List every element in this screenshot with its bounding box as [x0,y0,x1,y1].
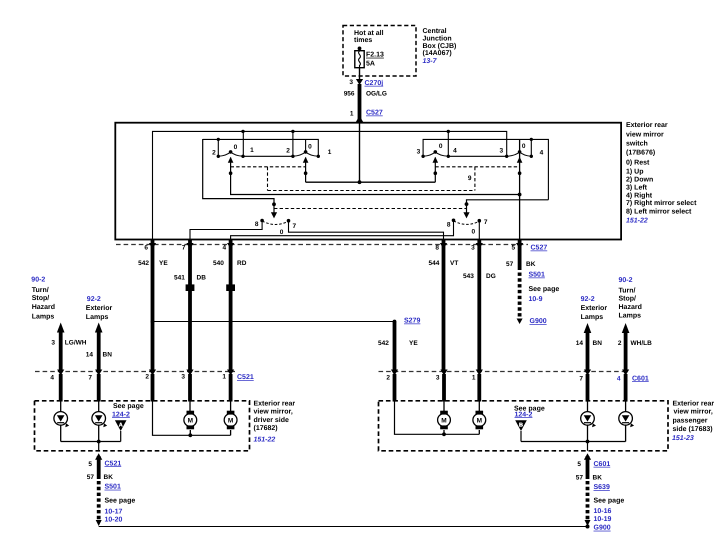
svg-text:Box (CJB): Box (CJB) [423,42,457,50]
svg-text:2) Down: 2) Down [626,175,653,183]
svg-text:Exterior rear: Exterior rear [254,400,296,408]
svg-text:C270j: C270j [365,79,384,87]
svg-text:M: M [188,418,193,425]
svg-text:124-2: 124-2 [112,411,130,418]
lamp L1 driver (turn signal) [54,401,68,442]
motor M1 passenger [438,401,451,435]
C601 pin arrows [391,370,629,376]
svg-text:See page: See page [529,286,560,293]
svg-text:2: 2 [386,374,390,381]
svg-text:See page: See page [113,403,144,410]
svg-text:BK: BK [593,475,603,482]
pin 5 C601 below passenger box [584,453,591,460]
svg-text:passenger: passenger [673,417,708,424]
triangle connector A [115,420,127,431]
arrow right select wiper [463,212,469,218]
exterior rear view mirror driver side box [35,401,250,451]
ground drop passenger box [587,442,589,451]
wire loop rect contacts 1-2 left group [243,131,293,156]
svg-text:1: 1 [250,147,254,154]
svg-text:0: 0 [280,229,284,236]
wire dot to fuse [359,48,361,50]
wire line B to left select wiper [203,139,274,213]
svg-text:Lamps: Lamps [581,314,604,321]
svg-text:8: 8 [447,221,451,228]
svg-text:(17682): (17682) [254,424,278,432]
lamp L1 passenger [581,401,595,442]
pin 5 C521 below driver box [95,453,102,460]
offpage arrow 90-2 turn stop hazard left [59,331,63,372]
svg-text:RD: RD [237,260,247,267]
lamp ground bus passenger [521,441,626,443]
wire ground bus to G900 [99,526,588,528]
wiper arc pole2 [293,152,318,156]
svg-text:Hazard: Hazard [32,303,55,311]
svg-text:5: 5 [88,461,92,468]
svg-text:10-19: 10-19 [594,516,612,523]
svg-text:(14A067): (14A067) [423,49,452,57]
svg-text:Exterior: Exterior [86,304,113,312]
svg-text:Lamps: Lamps [32,313,55,320]
svg-text:view mirror,: view mirror, [254,408,293,416]
svg-text:LG/WH: LG/WH [65,340,87,347]
svg-text:1: 1 [472,374,476,381]
wire 542 YE S279 to C601 pin2 [393,322,397,372]
pin 5 [518,240,522,244]
svg-text:90-2: 90-2 [619,277,633,284]
wire left cross rail [203,139,319,156]
wire pole3 wiper shaft [434,158,436,183]
svg-text:541: 541 [174,275,185,282]
svg-text:543: 543 [463,273,474,280]
svg-text:C601: C601 [632,375,649,382]
mech dashed link poles 3-4 [435,166,519,168]
svg-text:5: 5 [577,461,581,468]
svg-text:8: 8 [255,221,259,228]
wire pole2 wiper upline [305,139,307,152]
svg-text:9: 9 [468,175,472,182]
svg-text:10-20: 10-20 [105,517,123,524]
svg-text:956: 956 [344,90,355,97]
svg-text:S501: S501 [529,272,545,279]
svg-text:0: 0 [308,143,312,150]
wire fuse to C270j [359,68,361,80]
svg-text:92-2: 92-2 [581,296,595,303]
svg-text:90-2: 90-2 [31,277,45,284]
svg-text:8: 8 [435,244,439,251]
motor M2 passenger [473,401,486,435]
wiper up arrows poles [228,157,234,163]
svg-text:151-22: 151-22 [254,437,276,444]
svg-text:542: 542 [138,260,149,267]
ground drop driver box [98,442,100,451]
wire feed from C527 pin1 [359,123,361,183]
svg-text:Stop/: Stop/ [32,294,50,302]
svg-text:BN: BN [103,351,113,358]
arrow BK wire to G900 [517,319,523,325]
svg-text:YE: YE [409,340,418,347]
svg-text:C521: C521 [237,374,254,381]
wire right cross rail [423,139,548,199]
lamp ground bus driver [61,441,121,443]
wire 57 BK dashed to ground right [586,481,590,520]
svg-text:C527: C527 [366,110,383,117]
svg-text:2: 2 [286,148,290,155]
connector row C601 [379,371,630,373]
svg-text:1) Up: 1) Up [626,167,644,175]
svg-text:542: 542 [378,340,389,347]
wire top rail from pin 6 [153,131,507,239]
svg-text:0) Rest: 0) Rest [626,158,650,166]
svg-text:Central: Central [423,27,447,35]
svg-text:G900: G900 [594,525,611,532]
svg-text:Turn/: Turn/ [619,286,636,294]
exterior rear view mirror passenger side box [379,401,669,451]
svg-text:BK: BK [526,261,536,268]
svg-text:5A: 5A [366,61,375,68]
svg-text:7: 7 [579,375,583,382]
wire 57 BK dashed ground part [518,273,522,319]
svg-text:Junction: Junction [423,34,452,42]
svg-text:DB: DB [197,275,207,282]
svg-text:G900: G900 [530,318,547,325]
wire 544 VT pin8 to C601 [442,246,446,372]
svg-text:5: 5 [511,244,515,251]
hot-at-all-times dashed box (CJB) [343,26,416,77]
C521 pin arrows [57,370,234,376]
node contact dots selects [260,219,264,223]
svg-text:4: 4 [540,150,544,157]
svg-text:3) Left: 3) Left [626,183,648,191]
svg-text:151-22: 151-22 [626,218,648,225]
wire 542 YE pin6 to C521 [151,246,155,372]
node dot right select elbow [465,202,469,206]
svg-text:10-16: 10-16 [594,508,612,515]
pin 4 [229,240,233,244]
splice S279 line [153,321,395,323]
svg-text:M: M [441,418,446,425]
ground G900 node dot [586,525,590,529]
fuse F2.13 5A [355,51,364,68]
svg-text:See page: See page [105,498,136,505]
svg-text:C527: C527 [531,245,548,252]
svg-text:M: M [477,418,482,425]
mech dashed drop right [474,167,476,191]
wire pole1 wiper shaft and line A [231,158,520,195]
svg-text:57: 57 [576,475,584,482]
svg-text:3: 3 [349,79,353,86]
splice block on 540 RD [226,284,235,291]
arrow left select wiper [271,212,277,218]
wire contact-2 stub pole1 [217,139,219,156]
svg-text:1: 1 [350,110,354,117]
svg-text:S501: S501 [105,484,121,491]
svg-text:4: 4 [50,374,54,381]
svg-text:Exterior: Exterior [581,304,608,312]
svg-text:OG/LG: OG/LG [366,90,387,97]
svg-text:2: 2 [618,340,622,347]
mech dashed cross link 9 [268,190,475,192]
svg-text:Lamps: Lamps [86,314,109,321]
svg-text:Turn/: Turn/ [32,286,49,294]
svg-text:See page: See page [594,498,625,505]
svg-text:3: 3 [499,147,503,154]
svg-text:2: 2 [145,374,149,381]
svg-text:VT: VT [450,260,458,267]
svg-text:side (17683): side (17683) [673,425,713,433]
exterior rear view mirror switch box outline [115,123,621,240]
pin 1 connector C527 arrow (switch feed) [356,116,364,123]
svg-text:4: 4 [453,147,457,154]
wire select8 to pin7 [190,221,262,240]
svg-text:7: 7 [484,219,488,226]
svg-text:C521: C521 [105,460,122,467]
svg-text:Stop/: Stop/ [619,294,637,302]
wiper dashed arc left select [262,221,288,224]
wire 956 OG/LG [358,84,362,123]
svg-text:57: 57 [87,474,95,481]
svg-text:57: 57 [506,261,514,268]
svg-text:3: 3 [51,340,55,347]
svg-text:driver side: driver side [254,416,290,424]
svg-text:3: 3 [471,244,475,251]
motor bus passenger [395,401,480,435]
pin 7 [188,240,192,244]
triangle connector B [515,420,527,431]
node dots on wiper shafts [229,171,233,175]
svg-text:10-9: 10-9 [529,296,543,303]
node hot feed dot [358,47,362,51]
wire 540 RD pin4 to C521 [229,246,233,372]
svg-text:B: B [519,423,523,429]
wiper dashed arc right select [454,221,480,225]
wire line B2 to right select wiper [467,200,549,213]
svg-text:(17B676): (17B676) [626,149,655,157]
node dot line A to pin5 shaft [518,193,522,197]
svg-text:4: 4 [617,375,621,382]
wire select7 to pin8 [289,221,444,240]
svg-text:S279: S279 [404,318,420,325]
svg-text:1: 1 [222,374,226,381]
svg-text:0: 0 [471,229,475,236]
svg-text:Exterior rear: Exterior rear [626,121,668,129]
svg-text:switch: switch [626,139,648,147]
svg-text:3: 3 [181,374,185,381]
svg-text:YE: YE [159,260,168,267]
svg-text:C601: C601 [594,461,611,468]
svg-text:2: 2 [212,150,216,157]
svg-text:8) Left mirror select: 8) Left mirror select [626,208,692,216]
pin 8 [442,240,446,244]
svg-text:10-17: 10-17 [105,509,123,516]
lamp L2 passenger [619,401,633,442]
svg-text:0: 0 [439,143,443,150]
svg-text:14: 14 [86,351,94,358]
offpage arrow 90-2 turn stop hazard right [624,332,628,372]
svg-text:BK: BK [104,474,114,481]
svg-text:4) Right: 4) Right [626,191,653,199]
thick wires C521 row into driver mirror box [61,374,626,402]
wire pole2 wiper shaft [305,158,307,183]
pin 3 connector C270j arrow [356,79,363,85]
node contact dots poles [217,155,220,158]
svg-text:Hot at all: Hot at all [354,29,384,37]
svg-text:M: M [228,418,233,425]
wire loop rect contacts 4-3 right group [448,131,506,156]
mech dashed link poles 1-2 [231,166,306,168]
svg-text:0: 0 [234,144,238,151]
svg-text:Exterior rear: Exterior rear [673,399,715,407]
offpage arrow 92-2 exterior lamps left [97,331,101,372]
wire 541 DB pin7 to C521 [188,246,192,372]
motor bus driver [153,401,231,436]
svg-text:3: 3 [417,149,421,156]
svg-text:7: 7 [88,374,92,381]
svg-text:4: 4 [222,244,226,251]
lamp L2 driver (exterior lamp) [92,401,106,442]
svg-text:14: 14 [576,340,584,347]
svg-text:0: 0 [522,143,526,150]
wire contact-4 stub pole4 [530,139,532,156]
node dot cross rail stub right [530,138,533,141]
wire right select 7 to pin3 [478,221,480,240]
svg-text:92-2: 92-2 [87,296,101,303]
svg-text:1: 1 [328,149,332,156]
connector row C527 below switch [116,244,528,246]
pin 6 [151,240,155,244]
wire 543 DG pin3 to C601 [477,246,481,372]
svg-text:Lamps: Lamps [619,313,642,320]
svg-text:7: 7 [182,244,186,251]
pin 3 [477,240,481,244]
svg-text:7) Right mirror select: 7) Right mirror select [626,199,697,207]
mech dashed select link [274,208,467,210]
svg-text:151-23: 151-23 [672,435,694,442]
svg-text:A: A [119,423,123,429]
wire wiper feed line [306,181,436,183]
wiper arc pole4 [507,152,532,156]
wire pin4 to right select 8 [231,220,454,239]
offpage arrow 92-2 exterior lamps right [586,332,590,372]
node dot cross rail stub left [217,138,220,141]
node wiper dots poles [229,150,233,154]
node dot feed junction [358,180,362,184]
svg-text:times: times [354,36,372,44]
splice block on 541 DB [186,284,195,291]
wire 57 BK dashed to ground left [97,481,101,520]
svg-text:WH/LB: WH/LB [631,340,653,347]
svg-text:13-7: 13-7 [423,58,438,65]
wiper arc pole3 [423,152,448,156]
svg-text:7: 7 [293,223,297,230]
svg-text:6: 6 [144,244,148,251]
svg-text:S639: S639 [594,484,610,491]
svg-text:DG: DG [486,273,496,280]
svg-text:540: 540 [213,260,224,267]
node dot left select elbow [272,202,276,206]
svg-text:F2.13: F2.13 [366,52,384,59]
wiper arc pole1 [218,152,243,156]
motor M2 driver [224,401,237,436]
svg-text:view mirror: view mirror [626,130,664,138]
svg-text:3: 3 [436,374,440,381]
mech dashed drop left [267,167,269,191]
connector row C521 [35,371,235,373]
svg-text:view mirror,: view mirror, [674,408,713,416]
node dots on top rail [241,130,244,133]
svg-text:Hazard: Hazard [619,303,642,311]
wire pole4 wiper upline and pin5 shaft [519,139,521,239]
wire 57 BK solid part [518,246,522,270]
motor M1 driver [184,401,197,436]
svg-text:124-2: 124-2 [515,411,533,418]
svg-text:544: 544 [429,260,440,267]
svg-text:BN: BN [593,340,603,347]
